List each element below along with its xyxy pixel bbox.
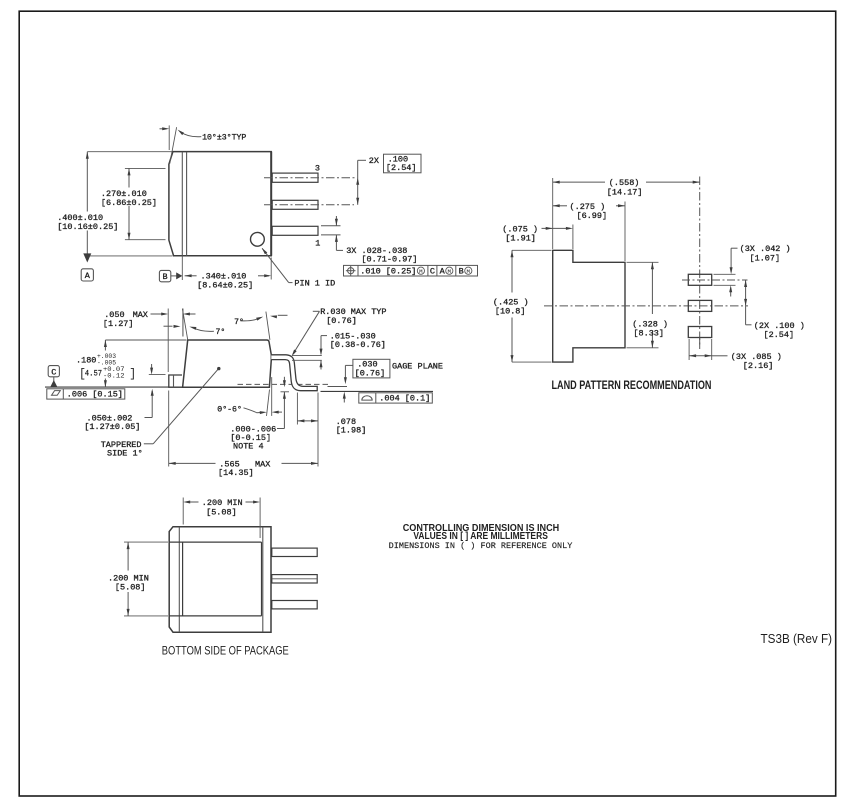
- land pattern tab pad outline: [553, 250, 625, 362]
- angle 7 deg right extension slant: [266, 312, 270, 340]
- svg-text:1: 1: [315, 239, 320, 249]
- svg-text:3: 3: [315, 164, 320, 174]
- svg-text:C: C: [430, 267, 435, 277]
- front view package body outline: [169, 152, 271, 256]
- angle 0-6 deg vertical extension line: [271, 377, 273, 416]
- dimension .078 foot length extension lines: [296, 393, 298, 425]
- angle 10 deg extension vertical line: [168, 125, 170, 150]
- seating plane right line: [321, 390, 434, 392]
- datum C stem and triangle: [53, 377, 55, 382]
- pad 3 lower centerline stub: [699, 338, 701, 350]
- svg-text:NOTE 4: NOTE 4: [233, 441, 264, 451]
- gage plane leader: [345, 364, 353, 366]
- svg-text:B: B: [163, 272, 168, 282]
- svg-text:[2.16]: [2.16]: [743, 361, 774, 371]
- svg-text:4.57: 4.57: [85, 369, 102, 379]
- dimension .000-.006 standoff arrows: [281, 391, 290, 393]
- dimension 2X .100 pin pitch: [357, 160, 359, 205]
- svg-text:C: C: [51, 367, 56, 377]
- side view seating plane line: [45, 386, 270, 388]
- angle 10 deg slanted extension line: [170, 127, 177, 163]
- dimension (3X .085) line with arrows: [689, 355, 712, 357]
- side view tab inner line: [173, 375, 175, 387]
- land pattern pad 3: [688, 327, 711, 338]
- angle 7 deg left outside arrow: [164, 325, 173, 327]
- bottom view right inner line: [262, 527, 264, 632]
- tappered side target dot: [217, 367, 220, 370]
- gage plane dashed line: [238, 383, 331, 385]
- svg-text:B: B: [459, 267, 464, 277]
- svg-text:7°: 7°: [234, 318, 244, 327]
- dimension .270 line with arrows: [128, 168, 130, 187]
- svg-text:[6.86±0.25]: [6.86±0.25]: [101, 198, 157, 208]
- svg-text:[5.08]: [5.08]: [115, 583, 146, 593]
- svg-text:M: M: [448, 268, 452, 275]
- svg-text:LAND PATTERN RECOMMENDATION: LAND PATTERN RECOMMENDATION: [552, 378, 712, 392]
- land pattern horizontal centerline: [544, 305, 748, 307]
- dimension (.425) extension lines: [512, 249, 552, 251]
- dimension (.275) line with arrows: [553, 205, 567, 207]
- svg-text:.004 [0.1]: .004 [0.1]: [379, 394, 430, 404]
- svg-text:[1.98]: [1.98]: [336, 426, 367, 436]
- svg-text:0°-6°: 0°-6°: [217, 405, 242, 414]
- dimension .400 overall height extension lines: [87, 151, 172, 153]
- front view pin 1: [272, 226, 318, 235]
- dimension .200 MIN top extension lines: [182, 498, 184, 525]
- dimension .400 line with arrows: [86, 152, 88, 212]
- svg-text:.010 [0.25]: .010 [0.25]: [360, 267, 416, 277]
- front view tab inner line 1: [181, 152, 183, 256]
- flatness dome symbol: [362, 396, 372, 400]
- angle 10 deg leader: [180, 132, 201, 137]
- dimension .180 top extension line: [105, 339, 186, 341]
- bottom view outer outline: [169, 527, 271, 633]
- angle 7 deg left extension slant: [182, 309, 187, 340]
- svg-text:MAX: MAX: [255, 459, 270, 469]
- bottom view exposed pad left/right lines: [182, 542, 184, 616]
- flatness symbol parallelogram: [52, 391, 61, 396]
- pin 3 centerline: [264, 177, 356, 179]
- svg-text:M: M: [419, 268, 423, 275]
- angle 0-6 deg slant extension line: [267, 390, 270, 416]
- feature control frame true position: [344, 265, 478, 276]
- side view lead: [271, 355, 317, 391]
- land pattern vertical centerline: [699, 177, 701, 345]
- dimension (.558) extension line: [552, 178, 554, 249]
- dimension 3X .028-.038 pin width: [321, 225, 341, 227]
- dimension (.275) extension line: [624, 202, 626, 262]
- svg-text:.006 [0.15]: .006 [0.15]: [67, 389, 123, 399]
- dimension (3X .042) extension lines: [714, 273, 736, 275]
- svg-text:A: A: [440, 267, 446, 277]
- svg-text:[8.33]: [8.33]: [633, 329, 664, 339]
- dimension (.558) line with arrows: [553, 181, 605, 183]
- datum A box: [81, 269, 93, 281]
- dimension (.075) arrows: [542, 227, 571, 229]
- dimension (.328) line with arrows: [651, 262, 653, 314]
- true position symbol: [348, 268, 354, 274]
- dimension .340 arrows: [185, 275, 197, 277]
- dimension (.075) extension line: [572, 225, 574, 250]
- dimension .015-.030 lead thickness: [292, 355, 322, 357]
- front view pin 3: [272, 173, 318, 182]
- datum C box: [48, 366, 59, 377]
- bottom view exposed pad top line: [169, 541, 261, 543]
- datum B feature triangle: [171, 275, 177, 277]
- svg-text:[2.54]: [2.54]: [386, 163, 417, 173]
- svg-text:]: ]: [129, 368, 136, 381]
- dimension (.328) extension lines: [627, 261, 659, 263]
- svg-text:[14.35]: [14.35]: [218, 468, 254, 478]
- svg-text:[1.07]: [1.07]: [750, 253, 781, 263]
- seating flatness arrow: [343, 395, 345, 403]
- dimension .565 MAX extension line left: [168, 391, 170, 467]
- pin 2 centerline: [264, 204, 354, 206]
- svg-text:[6.99]: [6.99]: [577, 211, 608, 221]
- angle 7 deg left vertical reference: [182, 309, 184, 337]
- dimension (3X .085) extension lines: [688, 339, 690, 360]
- svg-text:BOTTOM SIDE OF PACKAGE: BOTTOM SIDE OF PACKAGE: [162, 644, 289, 658]
- bottom view exposed pad bottom line: [169, 615, 261, 617]
- dimension (2X .100) line with arrows: [745, 280, 747, 306]
- svg-text:GAGE PLANE: GAGE PLANE: [392, 361, 443, 371]
- angle 0-6 deg leader: [244, 408, 257, 413]
- land pattern pad 1: [688, 274, 711, 285]
- front view tab inner line 2: [186, 152, 188, 256]
- svg-text:[5.08]: [5.08]: [206, 507, 237, 517]
- svg-text:[0.38-0.76]: [0.38-0.76]: [330, 340, 386, 350]
- angle 7 deg left leader: [193, 328, 214, 332]
- svg-text:7°: 7°: [216, 328, 226, 337]
- angle 7 deg right leader: [240, 318, 259, 321]
- dimension .180 arrows: [104, 340, 106, 351]
- svg-text:PIN 1 ID: PIN 1 ID: [294, 278, 335, 288]
- svg-text:[10.16±0.25]: [10.16±0.25]: [57, 222, 118, 232]
- side view tab: [169, 375, 183, 387]
- svg-text:[10.8]: [10.8]: [495, 307, 526, 317]
- angle 0-6 deg arrows: [257, 411, 264, 413]
- dimension .565 MAX lines and arrows: [169, 462, 216, 464]
- dimension .050 tab thickness bottom arrow: [151, 391, 153, 418]
- svg-text:[14.17]: [14.17]: [607, 187, 643, 197]
- pin 1 ID circle: [251, 232, 265, 246]
- svg-text:[0.76]: [0.76]: [355, 368, 386, 378]
- datum B box: [159, 270, 170, 281]
- pin 1 ID leader line: [262, 248, 289, 282]
- bottom view pin 3: [272, 601, 317, 609]
- svg-text:[8.64±0.25]: [8.64±0.25]: [197, 281, 253, 291]
- tappered side leader line: [144, 443, 153, 445]
- bottom view left inner line: [178, 527, 180, 632]
- dimension .200 MIN left extension lines: [124, 541, 168, 543]
- bottom view pin 2: [272, 575, 317, 583]
- lead radius R.030 leader: [313, 310, 320, 312]
- svg-text:[2.54]: [2.54]: [764, 330, 795, 340]
- datum A feature triangle: [83, 253, 91, 262]
- gage plane box: [353, 359, 390, 378]
- bottom view pin 1: [272, 548, 317, 556]
- svg-text:-0.12: -0.12: [103, 373, 125, 380]
- svg-text:[0.76]: [0.76]: [326, 316, 357, 326]
- svg-text:DIMENSIONS IN ( ) FOR REFERENC: DIMENSIONS IN ( ) FOR REFERENCE ONLY: [389, 541, 573, 551]
- dimension (.425) line with arrows: [511, 250, 513, 292]
- svg-text:M: M: [467, 268, 471, 275]
- dimension .270 extension lines: [125, 167, 166, 169]
- dimension .078 arrows: [297, 420, 318, 422]
- svg-text:[1.27±0.05]: [1.27±0.05]: [84, 422, 140, 432]
- svg-text:10°±3°TYP: 10°±3°TYP: [202, 134, 246, 143]
- front view body right edge thick line: [270, 152, 272, 256]
- svg-text:MAX: MAX: [133, 310, 148, 320]
- foot top extension line: [328, 386, 348, 388]
- svg-text:2X: 2X: [369, 156, 379, 166]
- front view pin 2: [272, 200, 318, 209]
- svg-text:.180: .180: [76, 355, 96, 365]
- flatness feature control frame right: [359, 393, 433, 403]
- dimension .340 extension line: [181, 256, 183, 280]
- flatness feature control frame left: [47, 389, 125, 399]
- dimension .050 MAX arrows: [151, 313, 166, 315]
- angle 10 deg left arrow: [160, 128, 167, 130]
- svg-text:[1.27]: [1.27]: [103, 319, 134, 329]
- svg-text:TS3B (Rev F): TS3B (Rev F): [761, 632, 833, 646]
- svg-text:SIDE 1°: SIDE 1°: [107, 449, 143, 459]
- dimension .200 MIN left line with arrows: [127, 542, 129, 570]
- side view body outline: [183, 340, 272, 387]
- dimension (3X .042) leader and arrows: [730, 248, 732, 272]
- angle 7 deg right outside arrow: [278, 314, 288, 316]
- pad 1 centerline: [682, 279, 748, 281]
- dimension .200 MIN top arrows: [186, 501, 199, 503]
- svg-text:[1.91]: [1.91]: [505, 234, 536, 244]
- land pattern pad 2: [688, 300, 711, 311]
- svg-text:[0.71-0.97]: [0.71-0.97]: [361, 255, 417, 265]
- svg-text:A: A: [85, 271, 91, 281]
- dimension box .100 [2.54]: [384, 154, 422, 173]
- dimension .050 tab thickness top arrow: [149, 374, 166, 376]
- dimension .050 MAX tab extension lines: [167, 309, 169, 373]
